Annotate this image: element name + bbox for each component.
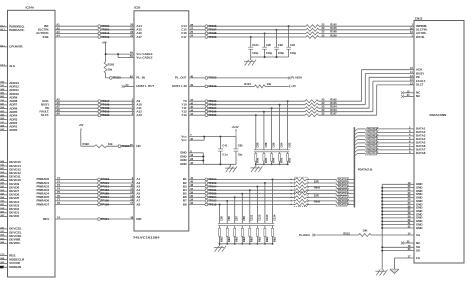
resistor R142 (22) [306, 25, 319, 28]
wire resistor to elbow [319, 107, 370, 109]
capacitor C123 [256, 187, 258, 224]
wire Vcc rail [189, 136, 236, 138]
wire ACK to CN12 [189, 100, 305, 102]
junction cap common [264, 56, 266, 58]
svg-text:C124: C124 [252, 43, 259, 47]
junction RC drop [226, 200, 228, 202]
wire stub (left edge) [0, 100, 8, 102]
resistor RB3.8 (network) [272, 226, 274, 229]
testpoint TP198 [98, 203, 101, 206]
wire stub (left edge) [0, 126, 8, 128]
wire stub (left edge) [0, 212, 8, 214]
testpoint TP204 [205, 196, 208, 199]
chassis ground (Vcc cluster) [225, 167, 235, 169]
svg-text:SLCT.: SLCT. [41, 113, 49, 117]
wire DATA1 net [354, 129, 357, 132]
bus PDATA(7:0) [353, 127, 355, 207]
svg-text:C121: C121 [250, 214, 254, 221]
junction RB3 common [272, 243, 274, 245]
testpoint TP195 [98, 200, 101, 203]
svg-text:C85: C85 [220, 216, 224, 221]
resistor R143 (22) [305, 110, 319, 113]
net flag PDATA6 (to CN12) [366, 148, 379, 151]
wire stub (left edge) [0, 197, 8, 199]
capacitor plate line upper (PDATA) [218, 222, 274, 224]
IC U25 body (IC25) [134, 11, 189, 231]
svg-text:R95: R95 [264, 157, 268, 162]
svg-text:DEVD0: DEVD0 [9, 214, 19, 218]
svg-text:REV: REV [43, 217, 49, 221]
net flag PL-HIGH (output) [288, 77, 291, 80]
wire stub (left edge) [0, 46, 8, 48]
svg-text:C82: C82 [288, 142, 292, 147]
wire GND pin 7 [382, 204, 414, 206]
wire BUSY net [55, 104, 134, 106]
wire to CN12 pin [377, 84, 414, 86]
resistor R213 (10K) [359, 234, 372, 237]
wire SLCT to CN12 [189, 114, 305, 116]
svg-text:R213: R213 [343, 231, 350, 235]
testpoint TP194 [205, 185, 208, 188]
net flag PDATA0 [336, 178, 349, 181]
capacitor C86 [271, 108, 273, 150]
svg-text:PDATA5: PDATA5 [338, 196, 348, 199]
connector CN12 body [414, 21, 464, 264]
wire PWRAD7 net [55, 204, 134, 206]
junction SG [381, 246, 383, 248]
svg-text:22R: 22R [314, 179, 319, 183]
svg-text:RB3: RB3 [250, 236, 254, 242]
resistor pack R665 outline [295, 177, 308, 192]
wire to CN12 DATA pin [377, 131, 414, 133]
testpoint TP217 [98, 100, 101, 103]
svg-text:+5V: +5V [291, 84, 296, 88]
wire GND pin 10 [382, 214, 414, 216]
svg-text:R93: R93 [279, 157, 283, 162]
wire +5V to R193 [105, 45, 107, 62]
svg-text:C95: C95 [266, 43, 271, 47]
resistor R149 (22) [306, 36, 319, 39]
wire GND pin 2 [382, 187, 414, 189]
wire flag to bus [348, 178, 353, 180]
svg-text:RB3: RB3 [272, 236, 276, 242]
wire to CN12 pin [365, 73, 414, 75]
wire PWRAD1 net [55, 182, 134, 184]
svg-text:R92: R92 [288, 157, 292, 162]
testpoint TP191 [205, 189, 208, 192]
wire GND pin 9 [382, 210, 414, 212]
testpoint TP209 [205, 182, 208, 185]
resistor RB3.4 (network) [241, 226, 243, 229]
wire R192 to HD [107, 145, 135, 147]
resistor R146 (22) [306, 28, 319, 31]
testpoint TP197 [205, 107, 208, 110]
svg-text:C17: C17 [181, 35, 187, 39]
svg-text:CPUINTR.: CPUINTR. [9, 45, 23, 49]
svg-text:R193: R193 [108, 62, 115, 66]
net flag PDATA7 [336, 203, 349, 206]
junction C41 gnd [219, 163, 221, 165]
wire stub (left edge) [0, 161, 8, 163]
svg-text:DATA8: DATA8 [416, 151, 426, 155]
testpoint TP207 [98, 25, 101, 28]
wire stub (left edge) [0, 172, 8, 174]
wire PDATA0 net [189, 178, 296, 180]
junction RC common [287, 163, 289, 165]
testpoint TP251 [98, 28, 101, 31]
svg-text:C133: C133 [265, 214, 269, 221]
wire stub (left edge) [0, 82, 8, 84]
capacitor C85 (10u) [235, 137, 237, 149]
junction RC drop [263, 111, 265, 113]
junction RB3 common [226, 243, 228, 245]
capacitor C95 (100p) [264, 33, 266, 47]
svg-text:DEVRD.: DEVRD. [9, 241, 20, 245]
svg-text:C94: C94 [290, 43, 295, 47]
junction RB3 common [264, 243, 266, 245]
wire stub (left edge) [0, 111, 8, 113]
svg-text:TP202: TP202 [208, 76, 217, 80]
wire stub (left edge) [0, 232, 8, 234]
resistor R193 [104, 62, 107, 73]
junction GND bus [381, 197, 383, 199]
wire GND pin 14 [382, 227, 414, 229]
junction RC drop [219, 204, 221, 206]
wire GND pin 3 [382, 190, 414, 192]
wire pack to flag [306, 182, 336, 184]
svg-text:PDATA6: PDATA6 [338, 200, 348, 203]
capacitor C124 (100p) [250, 37, 252, 47]
resistor R93 (network) [279, 152, 281, 154]
testpoint TP209 [98, 36, 101, 39]
wire R213 net [316, 234, 358, 236]
capacitor C88 [263, 112, 265, 150]
wire PDATA1 net [189, 182, 296, 184]
wire AUTOFD net [55, 32, 134, 34]
svg-text:C41: C41 [222, 144, 227, 148]
resistor RB3.6 (network) [256, 226, 258, 229]
testpoint TP219 [98, 182, 101, 185]
wire pack to flag [306, 186, 336, 188]
svg-text:13k: 13k [267, 82, 272, 86]
wire PWRAD4 net [55, 193, 134, 195]
wire to CN12 DATA pin [377, 152, 414, 154]
capacitor C82 [287, 101, 289, 150]
wire STB net [55, 36, 134, 38]
testpoint TP213 [98, 32, 101, 35]
testpoint TP203 [98, 178, 101, 181]
wire SG 1 [382, 246, 414, 248]
svg-text:R134: R134 [244, 82, 251, 86]
wire pack to flag [306, 193, 336, 195]
junction GND bus [381, 193, 383, 195]
junction RC drop [241, 193, 243, 195]
wire stub (left edge) [0, 201, 8, 203]
svg-text:R94: R94 [272, 157, 276, 162]
testpoint TP202 [205, 77, 208, 80]
wire flag to bus [348, 186, 353, 188]
wire PWRAD6 net [55, 200, 134, 202]
resistor R148 (22) [306, 32, 319, 35]
testpoint TP188 [205, 32, 208, 35]
wire pack to flag [306, 196, 336, 198]
bus GND (CN12) [381, 184, 383, 269]
testpoint TP196 [205, 110, 208, 113]
junction GND bus [381, 214, 383, 216]
svg-text:10K: 10K [363, 228, 368, 232]
junction RC drop [279, 104, 281, 106]
wire to CN12 [319, 36, 414, 38]
net flag PDATA6 [336, 199, 349, 202]
junction RC drop [264, 182, 266, 184]
wire PWRAD0 net [55, 178, 134, 180]
wire stub (left edge) [0, 129, 8, 131]
net flag PDATA1 (to CN12) [366, 131, 379, 134]
junction RB3 common [256, 243, 258, 245]
svg-text:C85: C85 [238, 144, 243, 148]
svg-text:R96: R96 [256, 157, 260, 162]
svg-text:RB3: RB3 [220, 236, 224, 242]
wire SG 2 [382, 250, 414, 252]
capacitor C41 (0.1u) [219, 137, 221, 149]
resistor network element R665.3 (22R) [295, 185, 306, 188]
net flag PDATA3 (to CN12) [366, 138, 379, 141]
junction GND bus [381, 224, 383, 226]
wire stub (left edge) [0, 183, 8, 185]
svg-text:PARDACK.: PARDACK. [9, 28, 24, 32]
wire to CN12 DATA pin [377, 138, 414, 140]
power +5V (R134) [289, 85, 290, 88]
junction RC drop [271, 107, 273, 109]
wire Vcc CABLE elbow [117, 54, 119, 58]
wire flag to bus [348, 200, 353, 202]
testpoint TP212 [205, 203, 208, 206]
wire pack to flag [306, 200, 336, 202]
wire stub (left edge) [0, 266, 8, 268]
testpoint TP206 [205, 36, 208, 39]
wire stub (left edge) [0, 262, 8, 264]
resistor network element R666.1 (22R) [295, 192, 306, 195]
svg-text:PDATA(7:0): PDATA(7:0) [358, 167, 373, 171]
wire stub (left edge) [0, 215, 8, 217]
svg-text:PWRAD7: PWRAD7 [36, 202, 49, 206]
svg-text:SG: SG [416, 248, 421, 252]
svg-text:8A 3: 8A 3 [0, 44, 5, 47]
wire BUSY to CN12 [189, 104, 305, 106]
wire Vcc CABLE 2 [118, 57, 134, 59]
chassis ground (PDATA group) [214, 247, 224, 249]
svg-text:RB3: RB3 [265, 236, 269, 242]
svg-text:A4: A4 [56, 34, 60, 38]
svg-text:RB3: RB3 [227, 236, 231, 242]
resistor network element R665.4 (22R) [295, 189, 306, 192]
wire stub (left edge) [0, 235, 8, 237]
resistor R94 (network) [271, 152, 273, 154]
junction RB3 common [249, 243, 251, 245]
svg-text:PARACONN: PARACONN [430, 113, 447, 117]
wire RC common bus [256, 163, 288, 165]
wire to CN12 pin [362, 69, 415, 71]
wire DATA2 net [354, 132, 357, 135]
net flag PDATA3 [336, 189, 349, 192]
wire RB3 common bus [220, 243, 273, 245]
svg-text:RB3: RB3 [235, 236, 239, 242]
resistor R192 [95, 145, 107, 148]
svg-text:A8: A8 [56, 108, 60, 112]
wire GND pin 5 [382, 197, 414, 199]
svg-text:GND: GND [416, 226, 423, 230]
svg-text:C92: C92 [278, 43, 283, 47]
svg-text:A2: A2 [56, 26, 60, 30]
svg-text:C87: C87 [235, 216, 239, 221]
svg-text:PDATA7: PDATA7 [368, 152, 378, 155]
testpoint TP205 [205, 114, 208, 117]
junction RB3 common [241, 243, 243, 245]
svg-text:B8: B8 [183, 202, 187, 206]
page corner mark [0, 266, 3, 268]
resistor R147 (22) [305, 114, 319, 117]
wire elbow up [372, 81, 374, 112]
svg-text:74LVC161284: 74LVC161284 [133, 235, 160, 239]
wire elbow up [368, 77, 370, 108]
svg-text:10k: 10k [108, 142, 113, 146]
svg-text:C86: C86 [272, 142, 276, 147]
svg-text:HD: HD [136, 144, 140, 148]
svg-text:A7: A7 [56, 105, 60, 109]
wire to CN12 DATA pin [377, 149, 414, 151]
svg-text:PL-HIGH: PL-HIGH [291, 76, 302, 80]
wire R213 to CN12 [371, 234, 414, 236]
svg-text:C88: C88 [242, 216, 246, 221]
wire stub (left edge) [0, 208, 8, 210]
junction GND bus [381, 200, 383, 202]
svg-text:C90: C90 [256, 142, 260, 147]
wire flag to bus [348, 193, 353, 195]
testpoint TP296 [118, 145, 121, 148]
svg-text:22R: 22R [314, 194, 319, 198]
wire stub (left edge) [0, 119, 8, 121]
no-connect stub 2 [404, 95, 415, 97]
wire to CN12 pin [373, 80, 414, 82]
wire Vcc CABLE 1 [106, 53, 134, 55]
wire to CN12 DATA pin [377, 145, 414, 147]
wire stub (left edge) [0, 169, 8, 171]
svg-text:C134: C134 [272, 214, 276, 221]
wire flag to bus [348, 196, 353, 198]
wire pack to flag [306, 189, 336, 191]
svg-text:C84: C84 [279, 142, 283, 147]
wire SLCTIN net [189, 29, 306, 31]
svg-text:R192: R192 [83, 142, 90, 146]
resistor RB3.1 (network) [219, 226, 221, 229]
svg-text:C88: C88 [264, 142, 268, 147]
wire DATA4 net [354, 139, 357, 142]
svg-text:10u: 10u [238, 152, 243, 156]
capacitor C85 [219, 205, 221, 224]
resistor R146 (22) [305, 103, 319, 106]
wire pack to flag [306, 178, 336, 180]
wire PWRAD3 net [55, 189, 134, 191]
junction capacitor drop [288, 25, 290, 27]
resistor RB3.7 (network) [264, 226, 266, 229]
testpoint TP187 [205, 28, 208, 31]
net flag PDATA2 (to CN12) [366, 134, 379, 137]
wire to CN12 pin [369, 76, 414, 78]
resistor R95 (network) [263, 152, 265, 154]
svg-text:PL_OUT: PL_OUT [175, 76, 187, 80]
wire GND pin 1 [382, 183, 414, 185]
capacitor C86 [226, 201, 228, 224]
wire SLCTIN net [55, 29, 134, 31]
junction RC drop [249, 189, 251, 191]
wire PDATA6 net [189, 200, 296, 202]
junction RC common [271, 163, 273, 165]
svg-text:TP209: TP209 [101, 35, 110, 39]
svg-text:100p: 100p [252, 51, 258, 55]
wire GND pin 12 [382, 220, 414, 222]
resistor RB3.2 (network) [226, 226, 228, 229]
wire PDATA4 net [189, 193, 296, 195]
junction GND bus [381, 204, 383, 206]
testpoint TP253 [98, 110, 101, 113]
svg-text:PL_IN: PL_IN [136, 76, 144, 80]
svg-text:IC25: IC25 [134, 6, 141, 10]
wire ACK net [55, 100, 134, 102]
junction RC drop [234, 196, 236, 198]
svg-text:A9: A9 [56, 112, 60, 116]
svg-text:DIR: DIR [136, 217, 142, 221]
wire DATA6 net [354, 146, 357, 149]
wire stub (left edge) [0, 115, 8, 117]
wire to ground [250, 57, 252, 60]
wire HOST L IN net [189, 85, 255, 87]
net flag PDATA7 (to CN12) [366, 152, 379, 155]
svg-text:+5V: +5V [79, 123, 84, 127]
wire stub (left edge) [0, 89, 8, 91]
wire PDATA3 net [189, 189, 296, 191]
wire flag to bus [348, 204, 353, 206]
resistor R145 (22) [305, 100, 319, 103]
chassis ground (ack RC group) [251, 167, 261, 169]
svg-text:Vcc: Vcc [181, 138, 187, 142]
wire stub (left edge) [0, 29, 8, 31]
svg-text:C123: C123 [257, 214, 261, 221]
wire REV net [55, 218, 134, 220]
testpoint TP195 [205, 103, 208, 106]
wire to CN12 [319, 32, 414, 34]
svg-text:HOST L IN: HOST L IN [172, 84, 186, 88]
wire FAULT to CN12 [189, 111, 305, 113]
earth ground (FG) [390, 268, 399, 270]
wire flag to bus [348, 189, 353, 191]
testpoint TP214 [205, 178, 208, 181]
no-connect stub bottom [404, 242, 415, 244]
junction Vcc [203, 136, 205, 138]
chassis ground (GND bus) [376, 270, 386, 272]
resistor R144 (22) [305, 107, 319, 110]
resistor R96 (network) [255, 152, 257, 154]
testpoint TP189 [98, 107, 101, 110]
junction GND bus [381, 217, 383, 219]
wire PDATA2 net [189, 186, 296, 188]
svg-text:PL-HIGH: PL-HIGH [299, 233, 310, 237]
wire PE net [55, 107, 134, 109]
capacitor C133 [264, 183, 266, 223]
wire PDATA5 net [189, 196, 296, 198]
wire to CN12 DATA pin [377, 128, 414, 130]
resistor network element R665.2 (22R) [295, 181, 306, 184]
junction GND bus [381, 227, 383, 229]
